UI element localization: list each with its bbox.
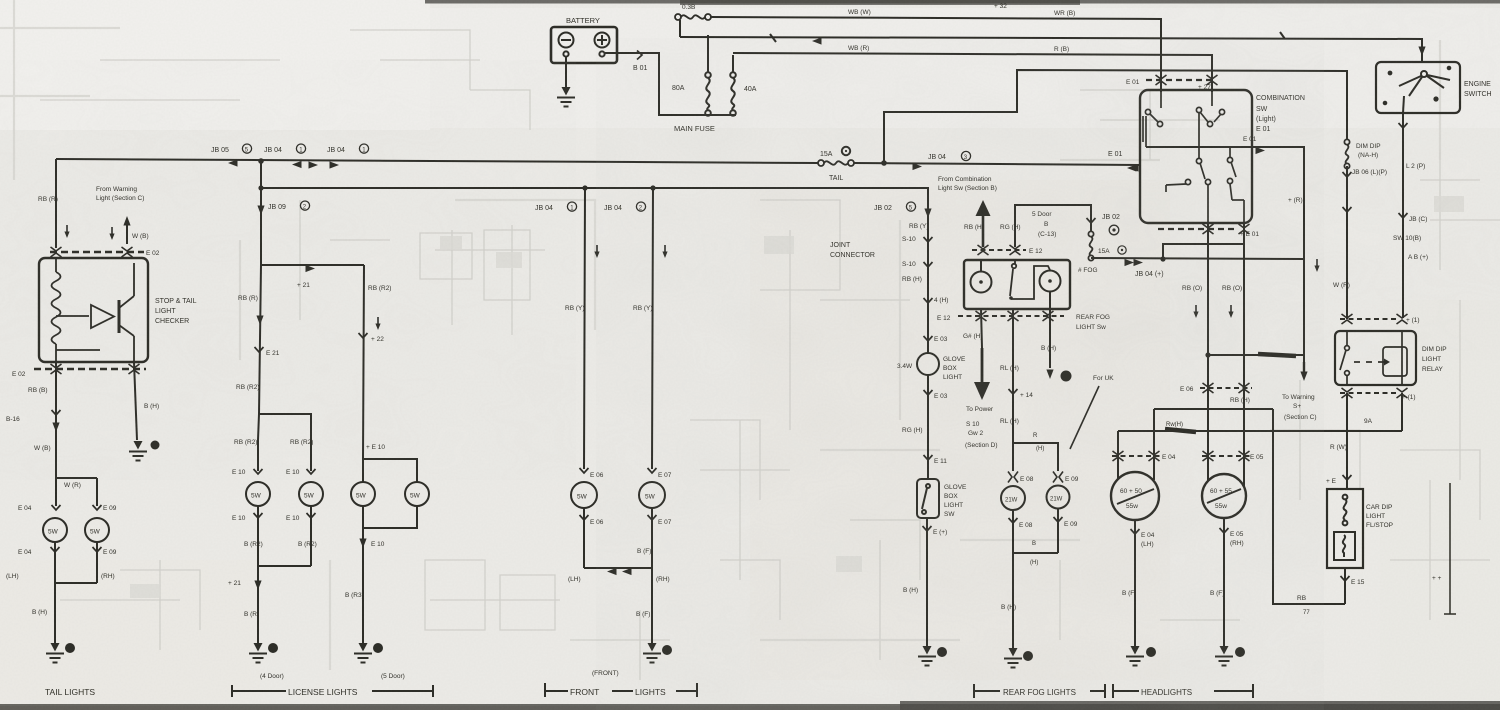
wire relay to resistor [1343,393,1352,489]
wire headlight feed right with elbow [1160,223,1244,456]
glove box light switch [917,479,939,518]
connector E-09 LH top [52,505,102,510]
wire second distribution line [258,161,928,200]
labels RB(O) [1182,285,1242,292]
bus labels JB05/JB04 [211,144,369,154]
labels E-06 E-07 below [590,519,672,526]
direction marks [1193,305,1233,318]
note to warning section C [1282,394,1317,421]
labels E-08 E-09 [1020,476,1079,483]
fog switch left terminal [971,260,992,293]
FRONT LIGHTS title [570,687,666,697]
LICENSE LIGHTS bracket [232,685,433,697]
scan border top [425,0,1500,4]
labels E-06 E-07 [590,472,672,479]
connector E-05 dashed [1202,451,1250,461]
relay contacts [1340,331,1407,385]
wire below headlight RH [1220,518,1229,648]
fuse 80A [705,35,711,116]
connectors E-10 below [254,506,316,645]
tail lamp RH 5W [85,518,109,542]
front lamp LH 5W [571,482,597,508]
wire E-01 through contact row [1146,146,1252,148]
rear fog lamp 2 21W [1047,486,1070,509]
labels E-08/E-09 below [18,549,117,556]
wire glove box chain [924,200,933,353]
ground headlight LH [1126,646,1156,666]
connector E-02 bottom dashed [34,364,146,374]
labels RB front [565,305,653,312]
arrow E-21 lower [254,581,261,591]
ground at battery [557,57,575,107]
connector E-12 upper dashed [972,245,1026,255]
wire stepped feed to dim-dip fuse [884,70,1347,163]
connectors E-10 above [254,469,316,474]
wire comb sw left exit to tail wire [1127,164,1137,171]
labels E-04 (LH) [1141,532,1155,548]
ground front lights [643,643,672,663]
note to power section D [965,406,998,449]
labels JB04 front [535,202,646,212]
wire bus line3 to combination switch [733,53,1212,92]
ground tail lights [46,643,75,663]
wire tail lamps split [56,478,97,506]
dim-dip fusible link [1343,139,1352,319]
license lamp 4 5W [405,482,429,506]
wire license feed drop [257,188,264,265]
GLOVE BOX LIGHT SW label [944,484,967,518]
ground glove box [918,646,947,666]
wire license branch horizontal [261,265,364,459]
labels E-10 [232,469,300,476]
arrow down from warning [109,227,114,240]
wire tail feed bus left [56,159,818,163]
label JB09-2 [268,201,310,211]
REAR FOG LIGHTS bracket [974,684,1105,698]
tail lamp LH 5W [43,518,67,542]
wire license left pair split [258,414,311,471]
connector E-01 top dashed [1146,75,1218,85]
battery B1 [551,27,617,63]
label JB04-3 [928,151,971,161]
engine switch contacts [1384,67,1451,113]
fuse 15A TAIL [818,160,854,166]
dim dip resistor R1 [1327,489,1363,568]
license lamp 2 5W [299,482,323,506]
ground headlight RH [1215,646,1245,666]
COMBINATION SW label [1256,95,1305,133]
label JB04 fog [1135,271,1164,278]
wire checker right output [134,362,137,440]
direction mark right branch [375,317,380,330]
wire relay to lowbeam bus [1401,393,1403,431]
wire fog sw right terminal stub [1046,292,1071,382]
ground license 5door [354,643,383,663]
wire below glove lamp [924,375,933,479]
connectors below fog lamps [1009,508,1063,650]
note from warning light [96,186,144,202]
label JB02-6 [1102,214,1120,235]
fusible link 0.3B [675,14,711,37]
connector E-06 dashed [1200,383,1252,393]
labels E-08 E-09 below [1019,521,1078,529]
wire checker left output [52,362,61,478]
scan border bottom [0,704,1500,710]
wire glove switch to ground [923,518,932,648]
front lamp RH 5W [639,482,665,508]
wire to warning branch [1205,352,1307,381]
headlight LH 60/55W [1111,457,1159,520]
fuse 40A [730,55,736,116]
pointer line For UK [1070,386,1099,449]
fog switch right terminal [1040,271,1061,292]
wire tail checker feed [56,159,70,248]
engine switch label [1464,81,1492,98]
REAR FOG LIGHT SW label [1076,314,1110,331]
GLOVE BOX LIGHT label [943,356,966,381]
15A label [820,151,833,158]
wire fog net [1091,258,1304,266]
wire bus line2 to engine switch [680,37,1426,62]
headlight RH 60/55W [1202,455,1246,518]
DIM DIP LIGHT RELAY label [1422,346,1447,373]
license lamp 3 5W [351,482,375,506]
wire front merge [584,568,652,575]
connector E-01 bottom dashed [1158,224,1250,234]
ground checker [129,441,160,461]
connector relay bottom dashed [1340,388,1408,398]
wire bus line1 to combination switch [710,17,1161,92]
checker label [155,298,197,325]
headlight RH text [1210,488,1232,510]
label B merge [1030,541,1038,566]
connector relay top dashed [1340,314,1408,324]
connector E-02 top dashed [50,247,144,257]
ground rear fog [1004,648,1033,668]
license lamp 1 5W [246,482,270,506]
label 15A-10 [1098,246,1126,255]
connector E-04 dashed [1112,451,1160,461]
FRONT LIGHTS bracket [545,683,697,697]
connector E-22 [359,333,368,338]
JOINT CONNECTOR label [830,242,875,259]
labels E-10 below [232,515,300,522]
arrow up fog feed [976,200,991,247]
CAR DIP LIGHT label [1366,504,1393,529]
wire right pair merge [359,506,417,645]
wire fog lamp feed [1009,309,1018,443]
wire 5door elbow [1015,205,1096,247]
ground license 4door [249,643,278,663]
glove box lamp [917,353,939,375]
rear fog light switch box S1 [964,260,1070,309]
wire fog sw to power branch [974,309,990,400]
labels E-05 (RH) [1230,531,1244,547]
wire resistor return [1341,568,1350,604]
arrow up W(B) [123,216,130,244]
connectors E-08 E-09 above [1008,472,1063,483]
label JB02-5 [874,202,916,212]
circled dot symbol [842,147,850,155]
wire tail feed bus right [854,160,1140,171]
dim dip relay K1 [1335,331,1416,385]
connectors below front lamps [580,508,657,645]
checker transistor Q1 [56,263,134,362]
wire front light feeds [584,188,668,469]
label 5 Door [1032,211,1056,238]
combination switch contacts [1143,90,1244,223]
checker coil [52,258,61,362]
labels B(R2) [244,541,317,548]
wire fog lamps split [1013,443,1058,471]
wire battery+ to main fuse [605,51,736,116]
bus arrows [228,158,339,168]
wire license right pair [363,459,417,483]
labels E-09 [18,505,117,512]
wire highbeam link [1154,409,1345,604]
dim-dip fuse label [1356,143,1381,159]
note from combination light sw [938,176,997,192]
small mark [1432,575,1442,582]
wire comb sw right exit E-01 [1252,147,1304,356]
connectors E-06/E-07 above [580,468,657,473]
stop and tail light checker box U1 [39,258,148,362]
labels RB(R2) pair [234,439,313,446]
wire engine switch output [1399,113,1408,318]
fuse 15A fog [1088,231,1093,260]
direction mark fog net [1314,259,1319,272]
headlight LH text [1120,488,1142,510]
pointer line right [1444,483,1456,614]
wire below headlight LH [1131,520,1140,648]
HEADLIGHTS bracket [1113,684,1253,698]
engine switch box [1376,62,1460,113]
rear fog lamp 1 21W [1001,486,1025,510]
connector E-12 lower dashed [958,311,1064,321]
tick mark [770,32,1285,42]
wire license left chain [255,265,264,440]
combination switch box S2 [1140,90,1252,223]
wire lowbeam bus [1118,429,1402,462]
connectors below tail lamps [51,542,102,645]
wire headlight feed left [1207,223,1209,455]
fog switch lever [1009,260,1050,300]
